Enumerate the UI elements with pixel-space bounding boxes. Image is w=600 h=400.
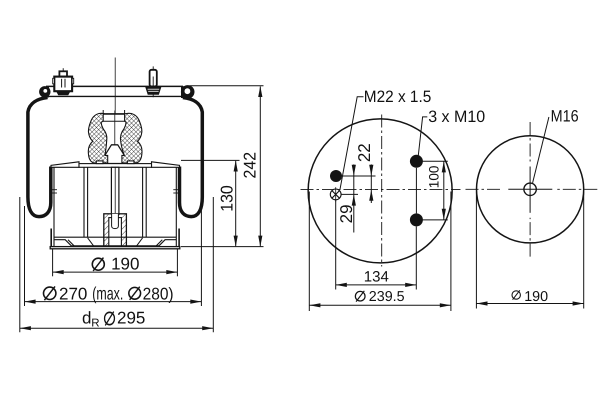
svg-text:270: 270 <box>59 285 87 304</box>
svg-text:100: 100 <box>426 165 441 188</box>
svg-text:295: 295 <box>117 308 145 327</box>
svg-text:M16: M16 <box>551 107 579 125</box>
svg-text:22: 22 <box>355 143 374 162</box>
svg-text:M22 x 1.5: M22 x 1.5 <box>364 88 432 106</box>
svg-text:130: 130 <box>217 185 236 212</box>
svg-text:190: 190 <box>524 289 548 305</box>
svg-text:134: 134 <box>364 268 389 285</box>
svg-text:(max.: (max. <box>92 284 123 304</box>
svg-text:239.5: 239.5 <box>369 289 405 305</box>
svg-text:190: 190 <box>111 255 139 274</box>
svg-text:29: 29 <box>337 204 356 223</box>
svg-text:242: 242 <box>240 152 259 179</box>
svg-text:d: d <box>82 308 91 327</box>
svg-text:R: R <box>91 318 99 330</box>
svg-text:3 x M10: 3 x M10 <box>428 108 485 126</box>
svg-text:280): 280) <box>143 285 174 304</box>
